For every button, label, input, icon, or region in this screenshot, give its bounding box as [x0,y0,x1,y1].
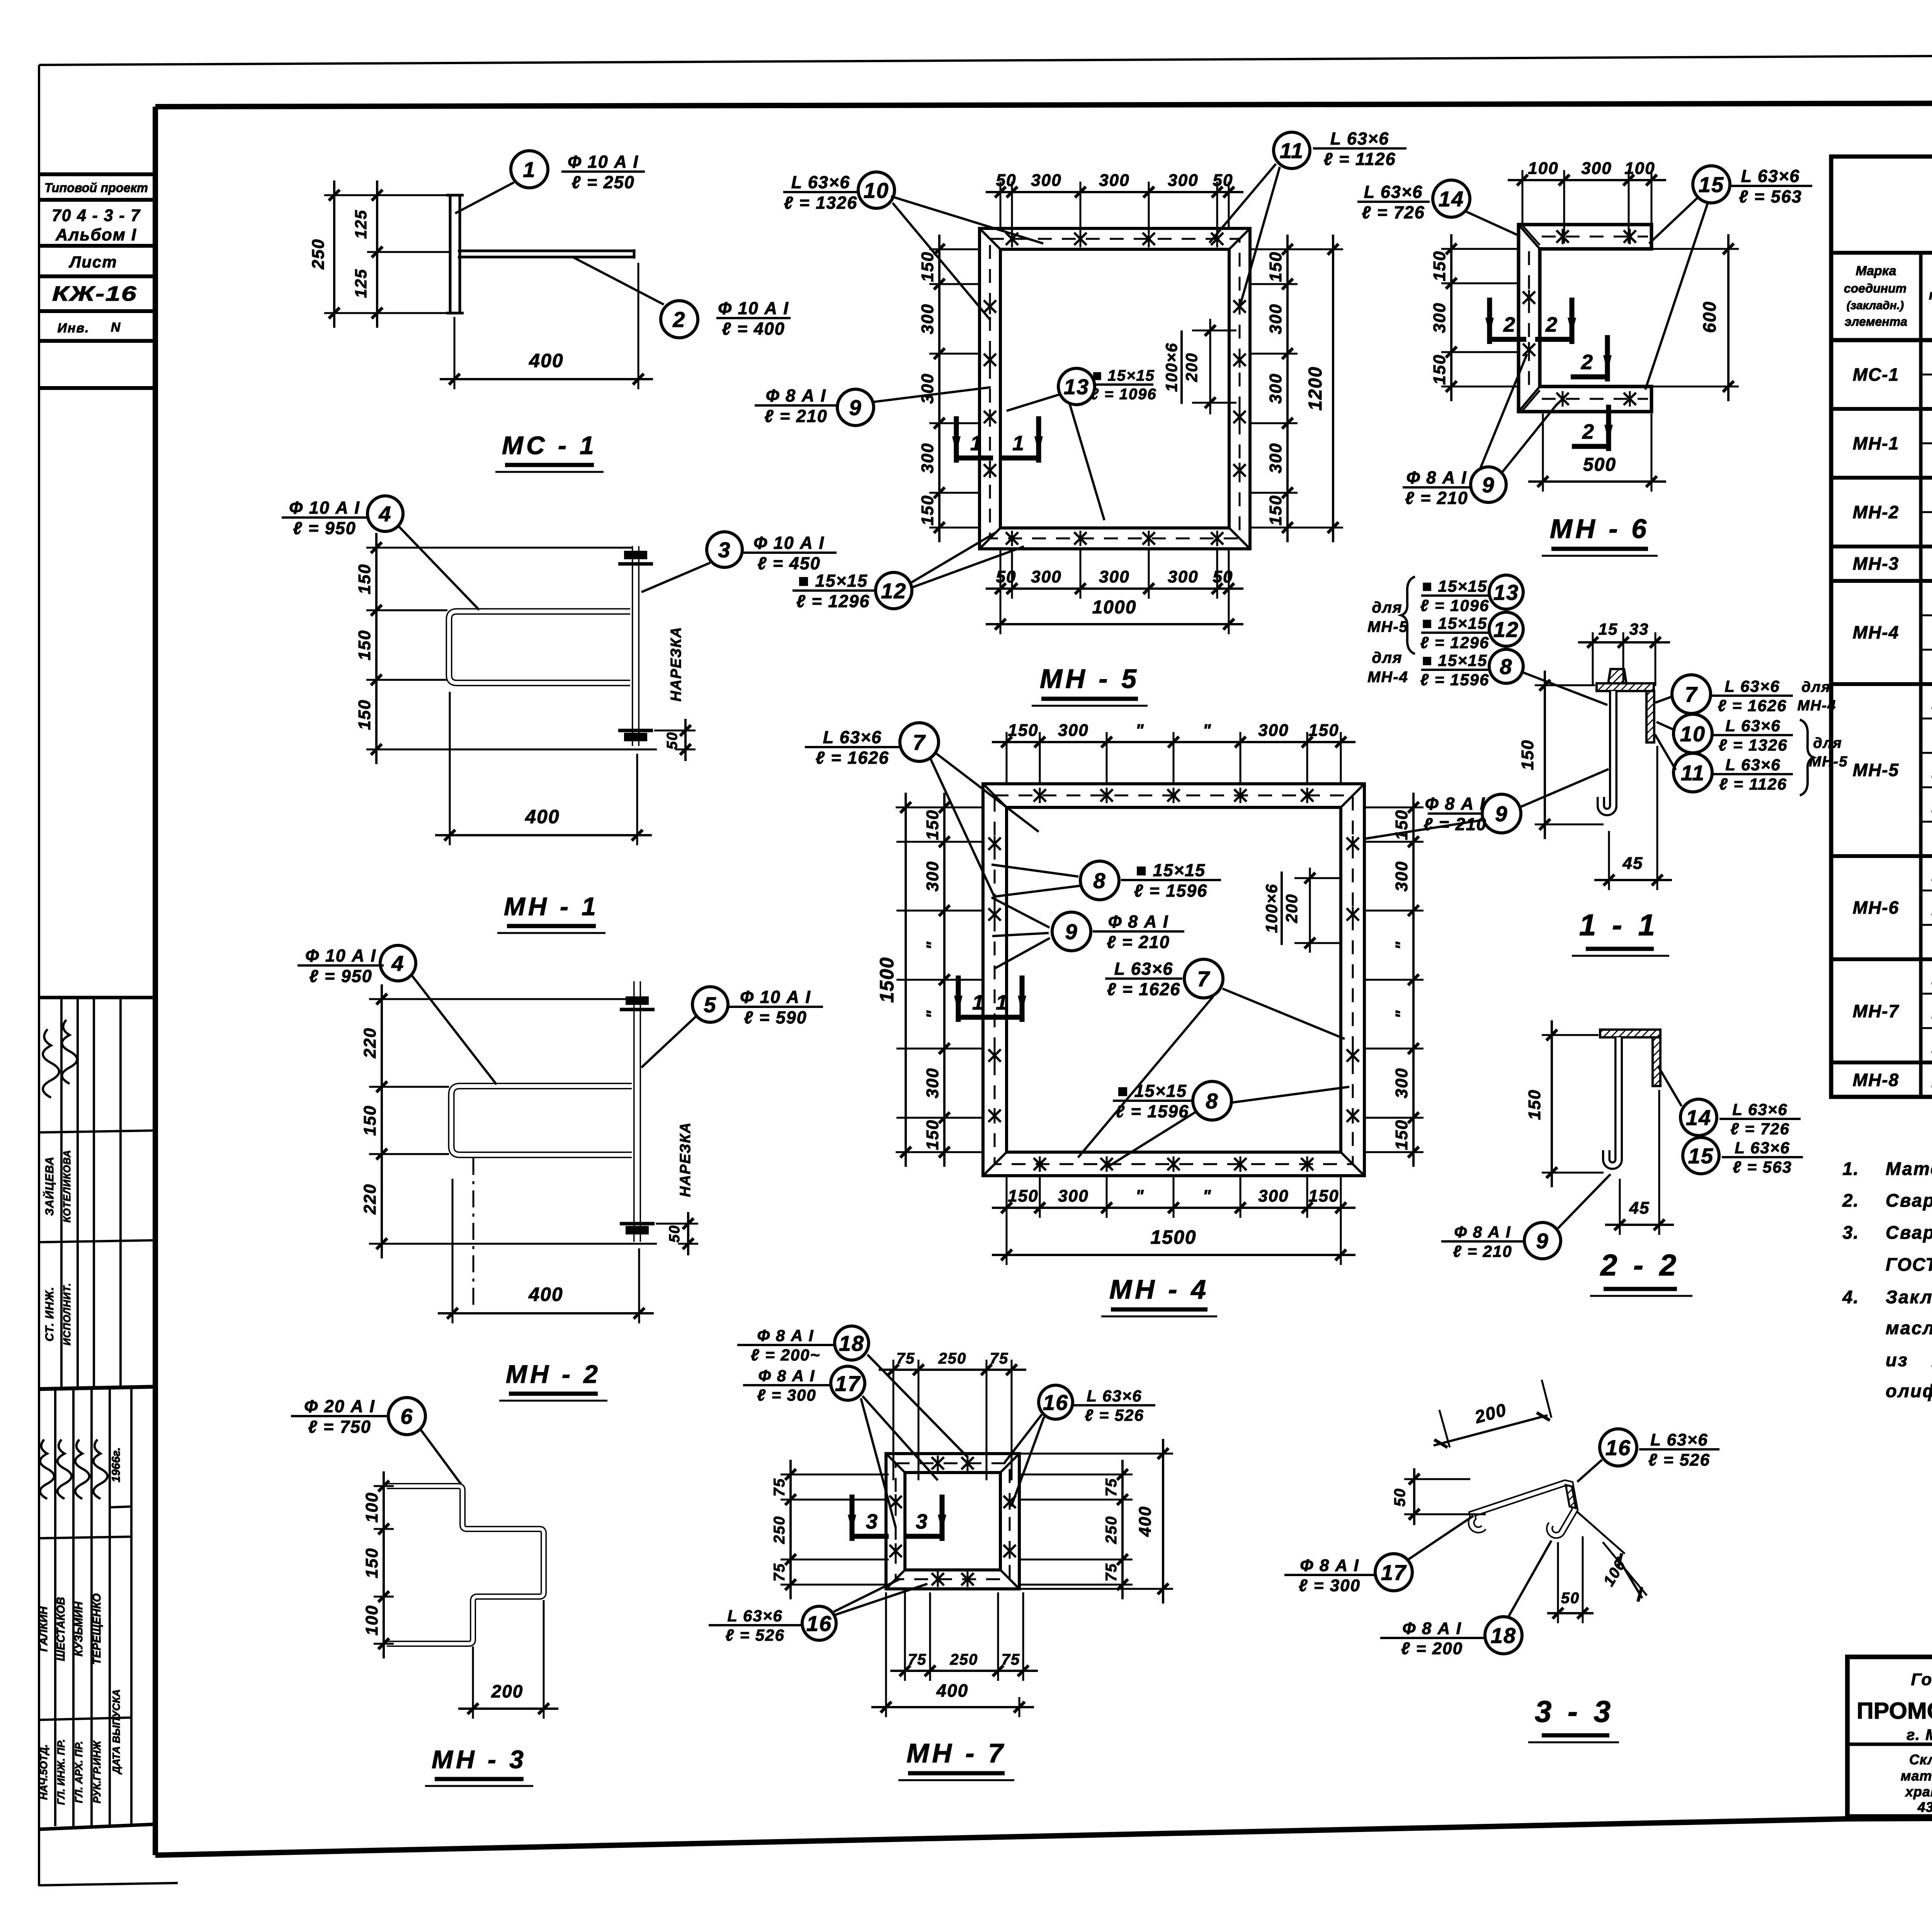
svg-text:ИСПОЛНИТ.: ИСПОЛНИТ. [61,1283,73,1346]
svg-text:L 63×6: L 63×6 [1330,129,1389,148]
svg-text:Ф 8 А I: Ф 8 А I [758,1367,815,1385]
svg-text:400: 400 [525,806,560,827]
svg-text:ℓ = 1296: ℓ = 1296 [796,591,870,611]
svg-text:Ф 10 А I: Ф 10 А I [753,533,825,553]
svg-text:L 63×6: L 63×6 [823,727,882,747]
svg-text:2: 2 [1503,313,1516,336]
svg-text:МН-4: МН-4 [1853,622,1899,642]
svg-text:для: для [1372,599,1402,616]
svg-text:для: для [1813,735,1842,751]
svg-text:300: 300 [918,373,937,403]
svg-text:9: 9 [1065,919,1078,944]
svg-text:КОТЕЛИКОВА: КОТЕЛИКОВА [61,1150,73,1222]
svg-text:150: 150 [923,809,942,840]
svg-text:18: 18 [839,1331,864,1355]
svg-text:150: 150 [355,564,374,594]
svg-text:432 м² без рампы: 432 м² без рампы [1917,1799,1932,1815]
svg-text:300: 300 [1031,171,1061,190]
svg-text:ℓ = 1096: ℓ = 1096 [1090,386,1156,403]
svg-text:9: 9 [1495,802,1508,826]
svg-text:200: 200 [1182,352,1201,382]
svg-text:2 - 2: 2 - 2 [1600,1248,1680,1282]
svg-text:Ф 20 А I: Ф 20 А I [304,1396,375,1416]
svg-text:500: 500 [1583,455,1616,475]
svg-text:45: 45 [1629,1199,1650,1217]
svg-text:ℓ = 1596: ℓ = 1596 [1420,671,1490,689]
svg-text:ℓ = 526: ℓ = 526 [1648,1451,1710,1469]
svg-text:Ф 8 А I: Ф 8 А I [1108,912,1169,931]
svg-text:9: 9 [849,395,862,420]
svg-text:ℓ = 526: ℓ = 526 [1085,1406,1144,1424]
svg-text:10: 10 [864,178,889,203]
svg-text:300: 300 [1058,721,1088,740]
svg-text:13: 13 [1493,580,1519,604]
svg-text:МН - 3: МН - 3 [432,1745,527,1774]
svg-text:5: 5 [704,993,716,1017]
svg-text:300: 300 [1430,302,1449,333]
svg-text:Инв.: Инв. [58,321,90,335]
svg-text:МН-1: МН-1 [1853,433,1899,453]
svg-text:150: 150 [918,495,937,525]
svg-text:11: 11 [1280,138,1304,163]
svg-text:400: 400 [1136,1506,1155,1537]
svg-text:75: 75 [771,1478,788,1497]
svg-text:ℓ = 300: ℓ = 300 [757,1386,816,1404]
svg-text:■ 15×15: ■ 15×15 [798,571,868,591]
svg-text:4: 4 [378,502,391,526]
svg-text:Ф 8 А I: Ф 8 А I [1454,1223,1511,1241]
svg-text:ℓ = 726: ℓ = 726 [1362,203,1425,222]
svg-text:": " [1136,721,1145,740]
svg-text:КУЗЬМИН: КУЗЬМИН [73,1601,85,1657]
svg-text:300: 300 [923,861,942,891]
svg-text:150: 150 [1518,739,1537,770]
svg-text:1: 1 [996,991,1008,1014]
svg-text:": " [1136,1187,1145,1205]
svg-text:Ф 10 А I: Ф 10 А I [740,987,811,1007]
svg-text:9: 9 [1482,473,1495,497]
svg-text:ℓ = 400: ℓ = 400 [722,319,785,339]
svg-text:ℓ = 1596: ℓ = 1596 [1134,881,1208,901]
svg-text:150: 150 [1008,1187,1038,1205]
svg-text:12: 12 [1493,617,1519,642]
svg-text:ℓ = 563: ℓ = 563 [1733,1158,1792,1176]
svg-text:МН-7: МН-7 [1853,1001,1900,1021]
svg-text:■ 15×15: ■ 15×15 [1117,1081,1187,1101]
svg-text:1200: 1200 [1305,366,1326,411]
svg-text:2: 2 [672,307,685,332]
svg-text:600: 600 [1699,301,1719,333]
svg-text:ℓ = 1126: ℓ = 1126 [1323,149,1396,169]
svg-text:L 63×6: L 63×6 [1725,677,1780,695]
svg-text:": " [923,941,942,950]
svg-text:150: 150 [361,1105,379,1136]
svg-text:300: 300 [1099,171,1129,190]
svg-text:250: 250 [938,1350,967,1367]
svg-text:150: 150 [355,630,374,660]
svg-text:МН - 5: МН - 5 [1040,664,1139,694]
svg-text:ℓ = 950: ℓ = 950 [293,518,356,538]
svg-text:50: 50 [1391,1488,1408,1507]
svg-text:2: 2 [1582,420,1595,443]
svg-text:75: 75 [1002,1651,1020,1668]
svg-text:400: 400 [528,1284,563,1305]
svg-text:ℓ = 1126: ℓ = 1126 [1719,775,1787,793]
svg-text:ℓ = 1626: ℓ = 1626 [1718,696,1787,715]
svg-text:300: 300 [918,303,937,334]
svg-text:45: 45 [1622,854,1643,873]
svg-text:50: 50 [996,567,1017,586]
svg-text:50: 50 [667,1225,683,1243]
svg-text:ℓ = 1296: ℓ = 1296 [1420,633,1490,652]
svg-text:Типовой проект: Типовой проект [44,180,148,195]
svg-text:": " [923,1010,942,1019]
svg-text:МН - 6: МН - 6 [1550,514,1650,544]
svg-text:ℓ = 200~: ℓ = 200~ [751,1346,820,1364]
svg-text:75: 75 [1103,1563,1120,1582]
svg-text:75: 75 [896,1350,915,1367]
svg-text:ℓ = 750: ℓ = 750 [308,1417,371,1437]
svg-text:2: 2 [1581,351,1594,374]
svg-text:1500: 1500 [1150,1226,1196,1248]
svg-text:МН-4: МН-4 [1367,669,1408,686]
svg-text:50: 50 [1213,567,1233,586]
svg-text:хранения площадью: хранения площадью [1905,1784,1932,1800]
svg-text:75: 75 [1103,1478,1120,1497]
svg-text:15: 15 [1688,1144,1714,1168]
svg-text:олифе или краской ХВ-124 за тр: олифе или краской ХВ-124 за три раза по … [1886,1381,1932,1401]
svg-text:1966г.: 1966г. [110,1447,122,1483]
svg-text:150: 150 [1266,251,1285,282]
svg-text:250: 250 [771,1516,788,1544]
svg-text:75: 75 [771,1563,788,1582]
svg-text:4: 4 [391,951,404,976]
svg-text:Ф 8 А I: Ф 8 А I [757,1326,814,1345]
svg-text:Ф 10 А I: Ф 10 А I [718,298,789,318]
svg-text:L 63×6: L 63×6 [791,172,850,192]
svg-text:ДАТА ВЫПУСКА: ДАТА ВЫПУСКА [111,1689,122,1775]
svg-text:50: 50 [1213,171,1233,190]
svg-text:150: 150 [362,1548,381,1578]
svg-text:Ф 8 А I: Ф 8 А I [1300,1556,1359,1575]
svg-text:150: 150 [355,699,374,730]
svg-text:СТ. ИНЖ.: СТ. ИНЖ. [43,1287,56,1342]
svg-text:ℓ = 563: ℓ = 563 [1739,187,1802,206]
svg-text:300: 300 [1168,171,1198,190]
svg-text:■ 15×15: ■ 15×15 [1092,367,1155,384]
svg-text:250: 250 [309,238,328,269]
svg-text:3: 3 [866,1510,878,1533]
svg-text:Ф 10 А I: Ф 10 А I [305,946,376,965]
svg-text:ℓ = 200: ℓ = 200 [1401,1639,1463,1658]
svg-text:МС-1: МС-1 [1853,364,1899,385]
svg-text:ℓ = 1096: ℓ = 1096 [1420,596,1490,615]
svg-text:ℓ = 1596: ℓ = 1596 [1116,1102,1189,1121]
svg-text:МС - 1: МС - 1 [502,431,597,460]
svg-text:100: 100 [362,1492,381,1522]
svg-text:ℓ = 1626: ℓ = 1626 [1107,979,1181,999]
svg-text:300: 300 [1058,1187,1088,1205]
svg-text:ГЛ. АРХ. ПР.: ГЛ. АРХ. ПР. [73,1741,85,1803]
svg-text:300: 300 [923,1067,942,1098]
svg-text:150: 150 [1525,1089,1544,1120]
svg-text:50: 50 [1561,1590,1580,1607]
svg-text:Ф 8 А I: Ф 8 А I [1425,794,1486,814]
svg-text:150: 150 [923,1119,942,1150]
svg-text:ℓ = 300: ℓ = 300 [1299,1576,1361,1595]
svg-text:18: 18 [1491,1623,1516,1648]
svg-text:": " [1392,941,1411,950]
svg-text:ЗАЙЦЕВА: ЗАЙЦЕВА [43,1156,56,1216]
svg-text:МН-8: МН-8 [1853,1070,1899,1090]
svg-text:НАЧ.5ОТД.: НАЧ.5ОТД. [38,1744,49,1800]
svg-text:НАРЕЗКА: НАРЕЗКА [668,627,684,701]
svg-text:Госстрой ссср: Госстрой ссср [1911,1670,1932,1689]
svg-text:300: 300 [1266,443,1285,473]
svg-text:(закладн.): (закладн.) [1847,299,1904,312]
svg-text:200: 200 [1282,894,1301,923]
svg-text:ℓ = 450: ℓ = 450 [757,553,821,573]
svg-text:ГЛ. ИНЖ. ПР.: ГЛ. ИНЖ. ПР. [55,1739,67,1805]
svg-text:МН-4: МН-4 [1798,698,1837,714]
svg-text:Марка: Марка [1856,264,1896,278]
svg-text:МН-6: МН-6 [1853,897,1899,918]
svg-text:МН - 2: МН - 2 [506,1360,601,1388]
svg-text:ℓ = 210: ℓ = 210 [1405,488,1468,508]
svg-text:Ф 8 А I: Ф 8 А I [1406,468,1467,487]
svg-text:ПРОМСТРОЙПРОЕКТ: ПРОМСТРОЙПРОЕКТ [1857,1698,1932,1724]
svg-text:17: 17 [1381,1560,1407,1585]
svg-text:из железного сурика, на на: из железного сурика, на натуральной [1886,1350,1932,1370]
svg-text:7: 7 [1685,682,1698,707]
svg-text:1: 1 [970,432,983,455]
svg-text:1 - 1: 1 - 1 [1579,908,1659,942]
svg-text:МН - 7: МН - 7 [906,1738,1006,1768]
svg-text:МН-5: МН-5 [1853,760,1899,780]
svg-text:8: 8 [1500,654,1512,679]
svg-text:220: 220 [361,1183,379,1214]
svg-text:ℓ = 250: ℓ = 250 [571,172,635,192]
svg-text:7: 7 [913,730,926,754]
svg-text:400: 400 [529,350,563,371]
svg-text:16: 16 [1605,1435,1631,1460]
svg-text:для: для [1801,679,1831,695]
svg-text:L 63×6: L 63×6 [1650,1430,1708,1449]
svg-text:300: 300 [1266,303,1285,334]
svg-text:L 63×6: L 63×6 [1725,717,1781,735]
svg-text:100×6: 100×6 [1262,884,1281,933]
svg-text:ℓ = 1326: ℓ = 1326 [784,193,858,213]
svg-text:3.: 3. [1842,1222,1859,1243]
svg-text:ℓ = 726: ℓ = 726 [1730,1120,1790,1138]
svg-text:соединит: соединит [1844,281,1906,295]
svg-text:L 63×6: L 63×6 [1725,756,1781,774]
svg-text:16: 16 [806,1611,832,1636]
svg-text:11: 11 [1681,761,1705,785]
svg-text:поз: поз [1929,287,1932,303]
svg-text:Закладные элементы МН-1, МН: Закладные элементы МН-1, МН-2 окрасить [1886,1287,1932,1307]
svg-text:1: 1 [972,991,985,1014]
svg-text:элемента: элемента [1845,315,1907,329]
svg-text:50: 50 [996,171,1017,190]
svg-text:9: 9 [1536,1229,1549,1253]
svg-text:8: 8 [1093,868,1106,893]
svg-text:2: 2 [1545,313,1558,336]
svg-text:L 63×6: L 63×6 [1735,1139,1790,1157]
svg-text:300: 300 [1031,567,1061,586]
svg-text:ГОСТ 9467-6о .: ГОСТ 9467-6о . [1886,1254,1932,1275]
svg-text:1000: 1000 [1092,597,1137,618]
svg-text:■ 15×15: ■ 15×15 [1422,651,1488,669]
svg-text:Ф 8 А I: Ф 8 А I [1402,1619,1462,1638]
svg-text:1: 1 [523,157,536,182]
svg-text:МН-5: МН-5 [1809,754,1848,770]
svg-text:14: 14 [1439,187,1464,211]
svg-text:■ 15×15: ■ 15×15 [1422,614,1488,632]
svg-text:г. Москва - 1966г.: г. Москва - 1966г. [1906,1726,1932,1743]
svg-text:100: 100 [362,1605,381,1635]
svg-text:300: 300 [1266,373,1285,403]
svg-text:15: 15 [1699,172,1724,197]
svg-text:10: 10 [1680,722,1706,746]
svg-text:Лист: Лист [68,253,117,271]
svg-text:125: 125 [352,209,370,239]
svg-text:для: для [1372,649,1402,666]
svg-text:300: 300 [1392,861,1411,891]
svg-text:ℓ = 1626: ℓ = 1626 [816,748,889,768]
svg-text:150: 150 [918,251,937,282]
svg-text:МН - 1: МН - 1 [504,892,599,921]
svg-text:1500: 1500 [876,957,898,1003]
svg-text:Ф 10 А I: Ф 10 А I [289,498,360,518]
svg-text:75: 75 [908,1651,927,1668]
svg-text:КЖ-16: КЖ-16 [52,282,137,305]
svg-text:300: 300 [918,443,937,473]
svg-text:Склад масел и хим-: Склад масел и хим- [1909,1752,1932,1767]
svg-text:150: 150 [1308,1187,1339,1205]
svg-text:материалов тарного: материалов тарного [1901,1768,1932,1784]
svg-text:ТЕРЕЩЕНКО: ТЕРЕЩЕНКО [91,1593,103,1665]
svg-text:300: 300 [1099,567,1129,586]
svg-text:": " [1203,1187,1212,1205]
svg-text:ℓ = 1326: ℓ = 1326 [1719,736,1788,754]
svg-text:300: 300 [1258,721,1289,740]
svg-text:70 4 - 3 - 7: 70 4 - 3 - 7 [52,206,141,225]
svg-text:300: 300 [1168,567,1198,586]
svg-text:50: 50 [664,732,680,749]
svg-text:ℓ = 210: ℓ = 210 [1453,1242,1512,1260]
svg-text:L 63×6: L 63×6 [1087,1387,1142,1405]
svg-text:ℓ = 210: ℓ = 210 [1107,932,1170,952]
svg-text:РУК.ГР.ИНЖ: РУК.ГР.ИНЖ [91,1740,103,1803]
svg-text:Сварные швы выполнять элект: Сварные швы выполнять электродами Э42 [1886,1222,1932,1243]
svg-text:250: 250 [950,1651,978,1668]
svg-text:220: 220 [361,1027,379,1058]
svg-text:16: 16 [1043,1390,1068,1415]
svg-text:N: N [111,320,121,335]
svg-text:14: 14 [1686,1105,1711,1130]
svg-text:Материал закладных элементов с: Материал закладных элементов сталь ВстЗк… [1886,1158,1932,1179]
svg-text:■ 15×15: ■ 15×15 [1136,860,1206,880]
svg-text:300: 300 [1392,1067,1411,1098]
svg-text:ℓ = 526: ℓ = 526 [725,1626,785,1644]
svg-text:15: 15 [1599,620,1618,638]
svg-text:200: 200 [491,1681,524,1701]
svg-text:150: 150 [1430,250,1449,281]
svg-text:100×6: 100×6 [1162,342,1180,392]
svg-text:ℓ = 210: ℓ = 210 [764,406,828,426]
svg-text:75: 75 [990,1350,1009,1367]
svg-text:1: 1 [1012,432,1025,455]
svg-text:ГАЛКИН: ГАЛКИН [37,1606,50,1651]
svg-text:1.: 1. [1842,1158,1859,1179]
svg-text:3: 3 [916,1510,928,1533]
svg-text:8: 8 [1206,1089,1218,1113]
svg-text:150: 150 [1430,354,1449,385]
svg-text:250: 250 [1103,1516,1120,1544]
svg-text:4.: 4. [1842,1287,1859,1307]
svg-text:L 63×6: L 63×6 [1732,1100,1787,1119]
svg-text:100: 100 [1624,159,1655,178]
svg-text:L 63×6: L 63×6 [1741,166,1800,186]
svg-text:3: 3 [718,538,731,562]
svg-text:150: 150 [1008,721,1038,740]
svg-text:Ф 8 А I: Ф 8 А I [766,386,827,405]
svg-text:■ 15×15: ■ 15×15 [1422,577,1488,595]
svg-text:": " [1392,1010,1411,1019]
svg-text:2.: 2. [1842,1190,1859,1210]
svg-text:МН-5: МН-5 [1367,618,1408,635]
svg-text:7: 7 [1197,967,1210,991]
svg-text:300: 300 [1581,159,1612,178]
svg-text:": " [1203,721,1212,740]
svg-text:150: 150 [1392,809,1411,840]
svg-text:12: 12 [881,579,906,603]
svg-text:ℓ = 950: ℓ = 950 [309,966,372,986]
svg-text:L 63×6: L 63×6 [1364,182,1423,202]
svg-text:МН-3: МН-3 [1853,553,1899,574]
svg-text:Альбом I: Альбом I [55,225,137,244]
svg-text:400: 400 [936,1680,969,1701]
svg-text:125: 125 [352,269,370,298]
svg-text:100: 100 [1528,159,1558,178]
svg-text:17: 17 [835,1371,861,1396]
svg-text:масляной краской за 2 раза: масляной краской за 2 раза по грунту [1886,1318,1932,1338]
svg-text:150: 150 [1308,721,1339,740]
svg-text:L 63×6: L 63×6 [1114,959,1173,979]
svg-text:МН - 4: МН - 4 [1109,1274,1209,1304]
svg-text:6: 6 [400,1404,413,1428]
svg-text:МН-2: МН-2 [1853,502,1899,522]
svg-text:Ф 10 А I: Ф 10 А I [568,152,639,172]
svg-text:13: 13 [1064,375,1089,399]
svg-text:150: 150 [1266,495,1285,525]
svg-text:НАРЕЗКА: НАРЕЗКА [677,1122,694,1197]
svg-text:150: 150 [1392,1119,1411,1150]
svg-text:33: 33 [1629,620,1649,638]
svg-text:ℓ = 590: ℓ = 590 [744,1008,807,1027]
svg-text:3 - 3: 3 - 3 [1535,1694,1614,1728]
svg-text:ШЕСТАКОВ: ШЕСТАКОВ [55,1597,67,1661]
svg-text:Сварные швы принимать высот: Сварные швы принимать высотой hш = 6 мм. [1886,1190,1932,1210]
svg-text:L 63×6: L 63×6 [727,1607,782,1625]
svg-text:300: 300 [1258,1187,1289,1205]
